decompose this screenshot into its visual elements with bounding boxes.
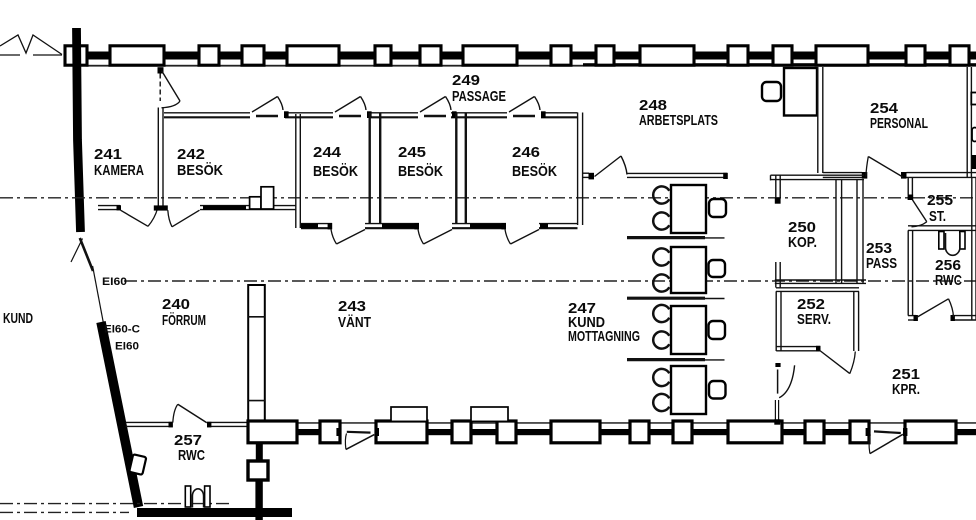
left wall of 250 lower <box>776 262 780 288</box>
wall between 242 and 244 <box>296 114 301 228</box>
bottom wall of rooms 244/245/246 <box>301 223 578 229</box>
svg-text:243: 243 <box>338 298 366 315</box>
wall between 250 and 252 <box>775 280 866 291</box>
wash basin in 257 <box>129 454 146 475</box>
svg-text:PASS: PASS <box>866 255 897 272</box>
svg-text:242: 242 <box>177 146 205 163</box>
bottom wall inner face line <box>248 422 976 424</box>
right wall of room 246 <box>578 113 583 226</box>
screen divider 3 <box>627 358 725 361</box>
svg-text:FÖRRUM: FÖRRUM <box>162 312 206 329</box>
workstation desk 2 with chairs <box>653 247 725 293</box>
entrance door leaf in left wall <box>71 238 103 323</box>
exterior wall break symbol (top-left) <box>0 35 62 55</box>
top wall of 257 <box>126 422 249 428</box>
wall between 241 and 242 <box>158 108 163 207</box>
svg-text:BESÖK: BESÖK <box>512 163 557 180</box>
svg-text:PASSAGE: PASSAGE <box>452 88 506 105</box>
copier/cabinet in 242 <box>250 187 274 209</box>
door of room 241 (swing down) <box>121 209 158 227</box>
door of 256 <box>917 299 954 318</box>
bottom wall of 254 right part <box>907 173 976 178</box>
bottom-left exterior wall <box>137 508 292 517</box>
svg-text:246: 246 <box>512 144 540 161</box>
top wall of 256 <box>908 226 976 231</box>
svg-text:PERSONAL: PERSONAL <box>870 115 928 132</box>
wall stub above 255 <box>908 178 914 200</box>
wall stub right of 246 <box>583 173 594 180</box>
door jamb at top of wall 241/242 <box>158 67 164 73</box>
svg-text:MOTTAGNING: MOTTAGNING <box>568 328 640 345</box>
shaft wall left (250/253) <box>836 179 842 284</box>
svg-text:EI60: EI60 <box>102 276 127 288</box>
exterior door in bottom wall (243) <box>336 428 379 449</box>
svg-text:KUND: KUND <box>3 310 33 327</box>
left wall of 254 <box>818 67 823 173</box>
bottom wall window boxes <box>248 421 956 443</box>
door jambs of 254 <box>862 172 907 179</box>
corridor wall below 248 <box>627 173 728 179</box>
svg-text:240: 240 <box>162 296 190 313</box>
right wall of 254 <box>967 67 971 177</box>
wall between 244 and 245 <box>370 113 381 224</box>
right wall of 255/256 <box>972 178 976 320</box>
centerline D (y=512) <box>0 511 129 513</box>
toilet in 256 <box>939 232 965 256</box>
radiator 2 <box>471 407 508 421</box>
workstation desk 4 with chairs <box>653 366 725 414</box>
toilet in 257 <box>185 486 210 508</box>
svg-text:SERV.: SERV. <box>797 311 831 328</box>
workstation desk 1 with chairs <box>653 185 726 233</box>
door into 248 corridor <box>595 156 628 177</box>
screen divider 2 <box>627 297 725 300</box>
left wall of 256 <box>908 230 912 315</box>
room labels <box>3 72 962 464</box>
door (dashed leaf) passage end <box>160 71 180 108</box>
door into 255 <box>912 200 927 227</box>
bottom wall band <box>248 429 976 435</box>
svg-text:244: 244 <box>313 144 342 161</box>
top wall inner face line (east thick) <box>583 63 976 66</box>
bottom wall of 252 <box>776 346 820 352</box>
shaft wall right (250/253) <box>857 179 863 284</box>
corridor door near 251 <box>775 363 794 398</box>
fixtures at right edge of 254 <box>971 93 976 170</box>
svg-text:EI60: EI60 <box>115 341 139 353</box>
partition post to bottom edge <box>255 480 262 520</box>
bottom wall of 256 <box>908 315 976 321</box>
svg-text:KOP.: KOP. <box>788 234 817 251</box>
top wall of rooms 242/244/245/246 <box>164 113 578 118</box>
doors of rooms 244/245/246 (swing down) <box>331 230 539 245</box>
right wall of 252 <box>854 291 859 351</box>
door of 257 <box>173 404 207 423</box>
partition post below (black) <box>256 441 263 462</box>
svg-text:KPR.: KPR. <box>892 381 920 398</box>
bottom wall room 241 <box>98 205 121 210</box>
top wall inner face line (west thin) <box>86 65 583 67</box>
svg-text:BESÖK: BESÖK <box>177 162 223 179</box>
centerline A (y=198) <box>0 197 976 199</box>
workstation desk 3 with chairs <box>653 305 725 354</box>
desk at wall of 254 <box>784 68 817 116</box>
bottom wall room 242 <box>200 206 296 210</box>
corridor top wall band (250 KOP top) <box>771 175 865 180</box>
svg-text:RWC: RWC <box>178 447 205 464</box>
doors from passage 249 into rooms <box>252 97 546 119</box>
top exterior wall band <box>66 52 976 60</box>
svg-text:ST.: ST. <box>929 208 946 225</box>
partition box <box>248 461 268 480</box>
svg-text:EI60-C: EI60-C <box>104 324 140 336</box>
svg-text:255: 255 <box>927 192 953 209</box>
centerline C (y=503) <box>0 503 230 505</box>
corridor wall to bottom window wall <box>774 400 780 425</box>
door of 252 <box>820 351 856 374</box>
svg-text:BESÖK: BESÖK <box>398 163 443 180</box>
left exterior wall (vertical, slight curve) <box>77 28 81 232</box>
radiator 1 <box>391 407 427 421</box>
svg-text:241: 241 <box>94 146 122 163</box>
left wall of 252 <box>776 291 781 351</box>
chair at 254 wall desk <box>762 82 781 101</box>
exterior door in bottom wall (251) <box>866 428 908 454</box>
partition between 240 and 243 <box>248 285 265 421</box>
top wall window/pillar boxes <box>65 46 969 65</box>
wall between 245 and 246 <box>456 113 466 224</box>
wall feet between doors 241/242 <box>154 205 168 210</box>
svg-text:249: 249 <box>452 72 480 89</box>
bottom wall of 254 left part <box>823 173 862 178</box>
screen divider 1 <box>627 236 725 239</box>
svg-text:KAMERA: KAMERA <box>94 162 144 179</box>
svg-text:RWC: RWC <box>935 272 962 289</box>
door of room 242 (swing down) <box>168 210 200 227</box>
centerline B (y=281) <box>124 280 976 282</box>
left exterior wall diagonal part <box>101 322 139 507</box>
svg-text:BESÖK: BESÖK <box>313 163 358 180</box>
svg-text:VÄNT: VÄNT <box>338 314 371 331</box>
svg-text:ARBETSPLATS: ARBETSPLATS <box>639 112 718 129</box>
left wall of 250 upper <box>775 175 781 204</box>
door of 254 <box>866 157 903 178</box>
svg-text:245: 245 <box>398 144 426 161</box>
